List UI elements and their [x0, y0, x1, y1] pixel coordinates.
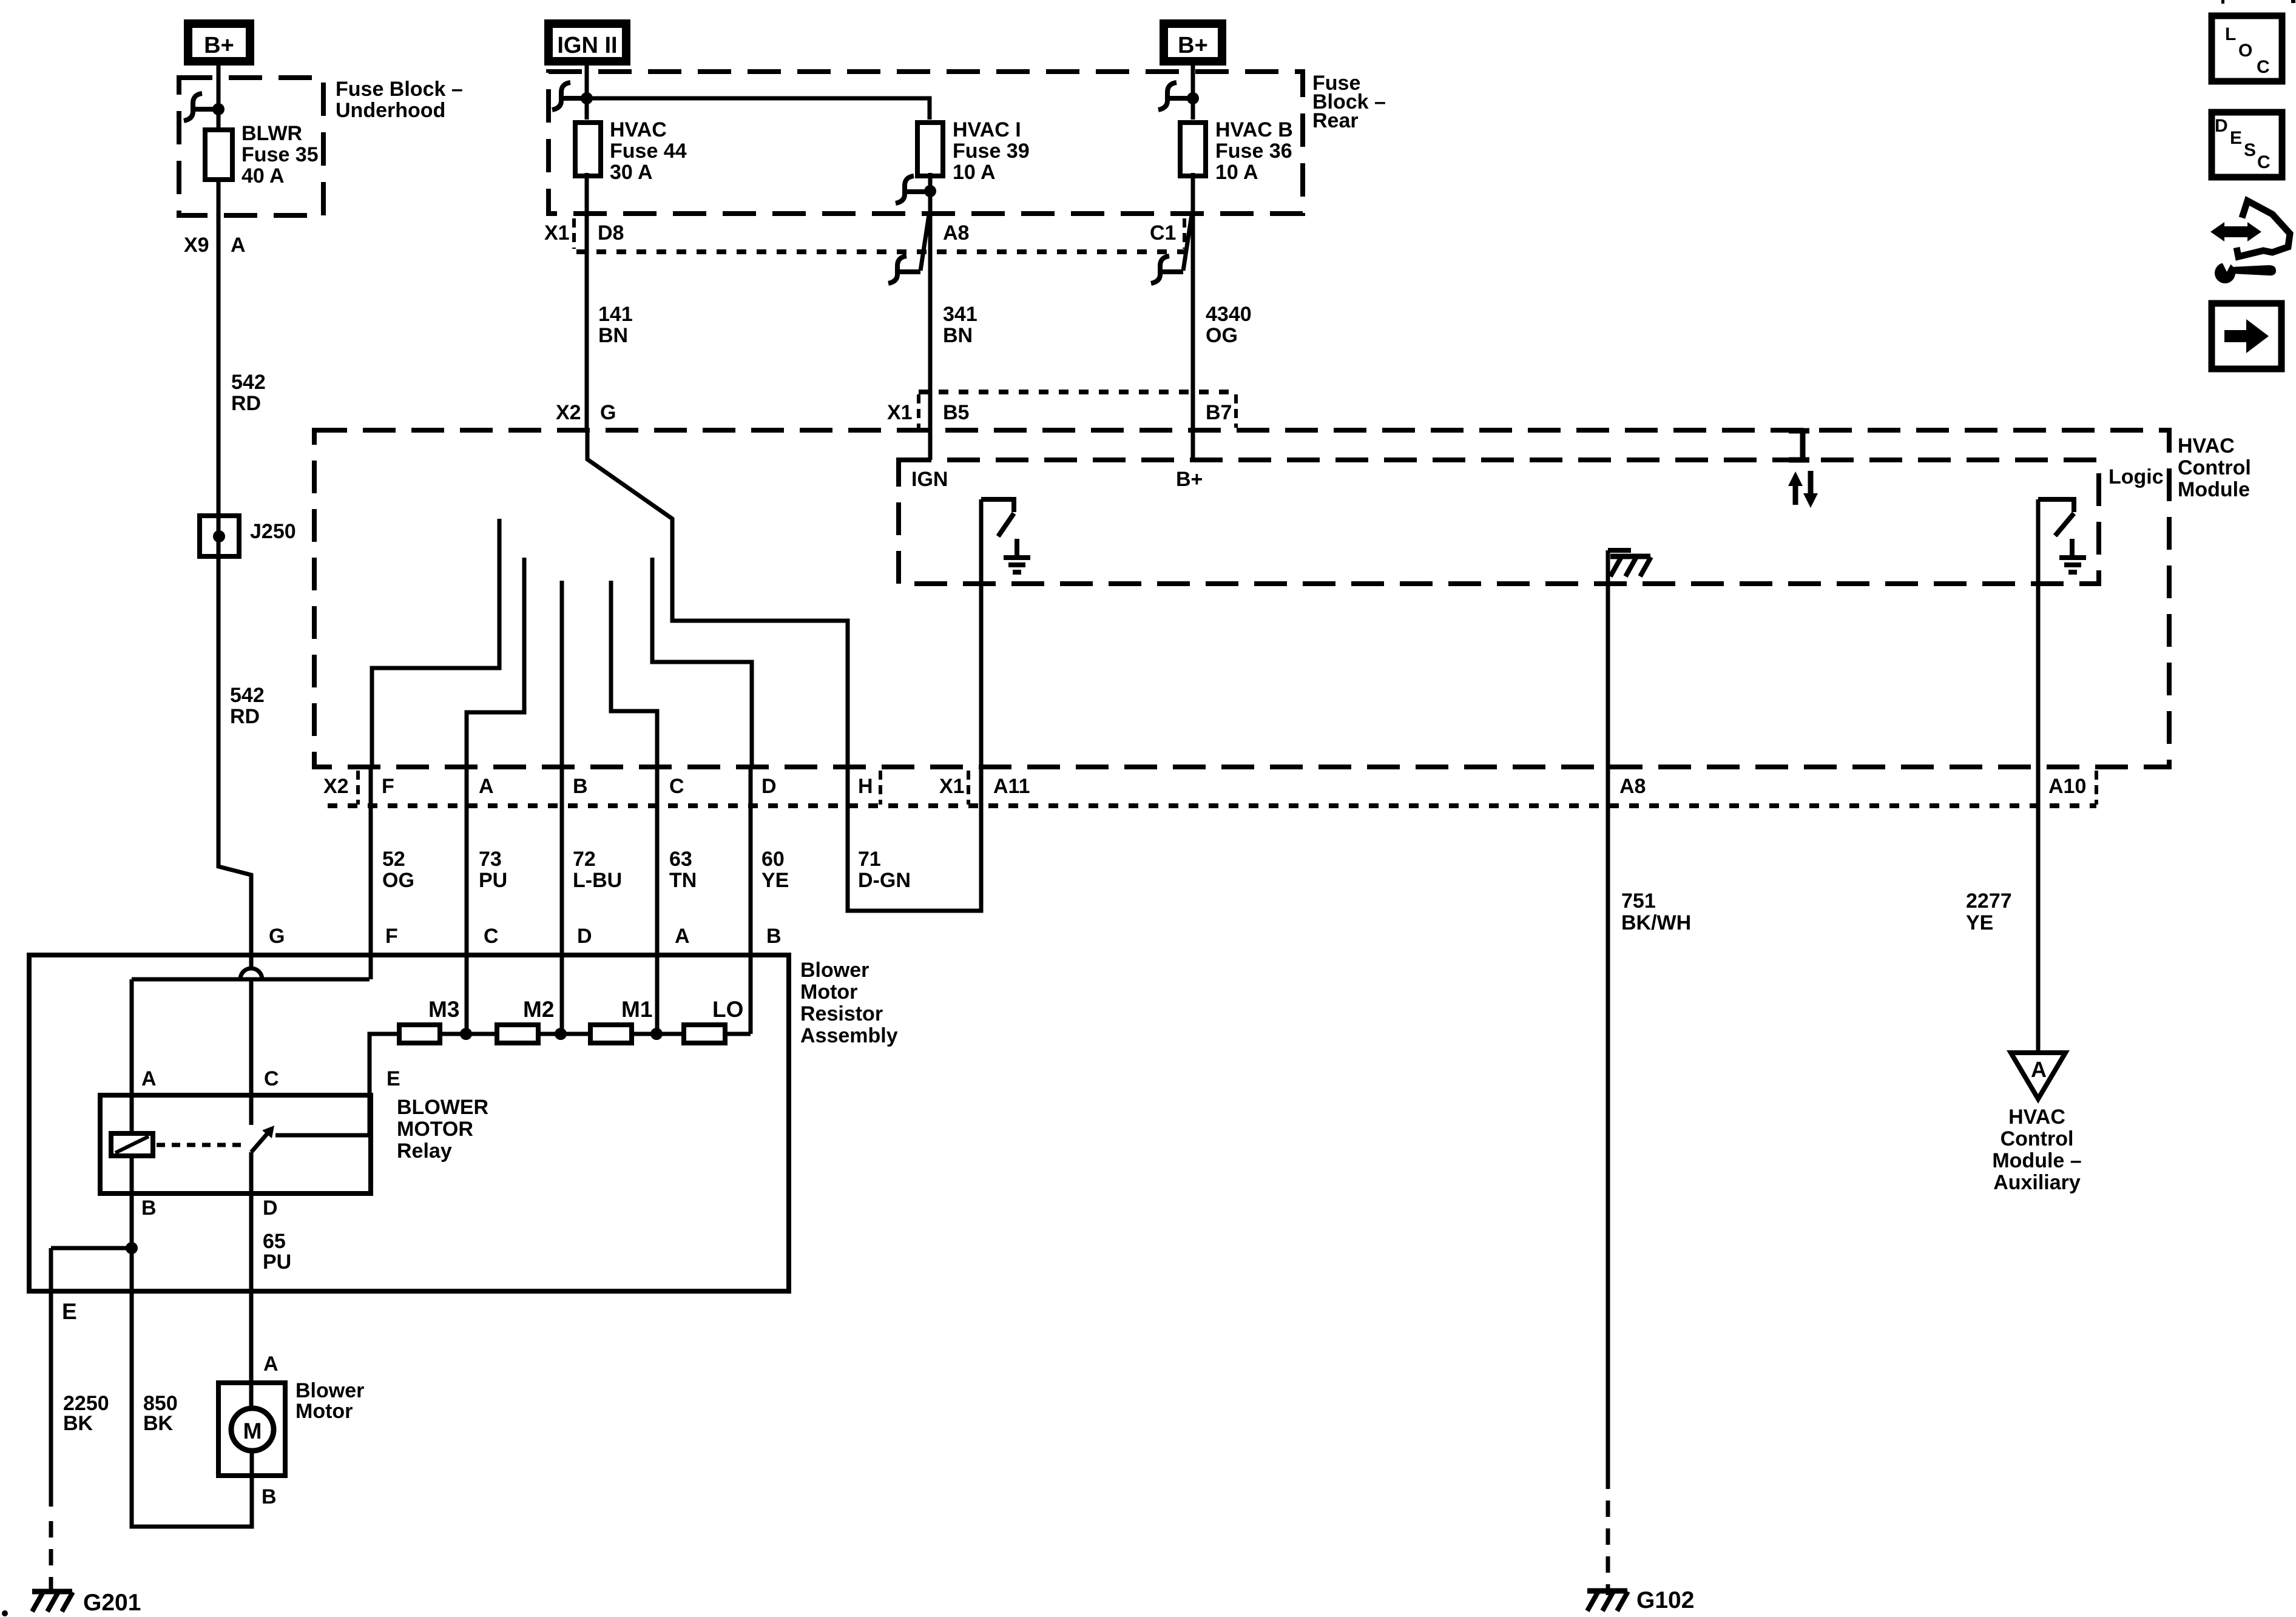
- wire fuse 36 to HVAC control module X1-B7 (4340 OG): [1191, 173, 1195, 460]
- node: resistor tap C: [460, 1028, 472, 1040]
- svg-text:BK: BK: [63, 1412, 93, 1435]
- ground G201: [32, 1592, 73, 1612]
- svg-text:30 A: 30 A: [610, 161, 653, 184]
- svg-text:Fuse 39: Fuse 39: [953, 140, 1030, 163]
- svg-text:Rear: Rear: [1312, 109, 1359, 132]
- wire B+ down to fuse 36: [1191, 66, 1195, 120]
- svg-text:60: 60: [761, 848, 785, 871]
- wire relay B to junction and blower motor return: [132, 1156, 252, 1527]
- svg-text:A: A: [2031, 1057, 2047, 1082]
- svg-text:Blower: Blower: [800, 959, 869, 982]
- svg-text:E: E: [2230, 128, 2242, 148]
- svg-text:Module –: Module –: [1992, 1149, 2081, 1172]
- svg-text:X1: X1: [939, 775, 965, 798]
- svg-text:D8: D8: [598, 221, 624, 245]
- svg-text:A8: A8: [943, 221, 969, 245]
- svg-text:B+: B+: [1178, 33, 1208, 58]
- branch continuation symbol at B+ rear junction: [1158, 83, 1190, 110]
- svg-text:Module: Module: [2178, 478, 2250, 501]
- svg-text:542: 542: [231, 371, 266, 394]
- icon double arrow with outline and wrench: [2220, 226, 2252, 237]
- wire fuse 44 to HVAC control module X2-G (141 BN): [585, 173, 589, 430]
- svg-text:65: 65: [263, 1230, 286, 1253]
- inline connector X1 (B5 / B7): [919, 390, 1236, 394]
- svg-text:L: L: [2225, 24, 2236, 44]
- svg-text:A: A: [141, 1067, 157, 1090]
- wire 73 PU (A to resistor C): [465, 767, 469, 1034]
- svg-text:Motor: Motor: [800, 981, 857, 1004]
- resistor chain wire: [370, 1034, 751, 1135]
- chassis ground inside module for pin A8: [1608, 548, 1631, 553]
- svg-text:S: S: [2244, 140, 2256, 160]
- relay coil: [111, 1133, 153, 1156]
- svg-text:B: B: [573, 775, 588, 798]
- Fuse Block - Underhood dashed box: [179, 78, 323, 215]
- svg-text:Underhood: Underhood: [336, 99, 445, 122]
- svg-text:LO: LO: [712, 997, 743, 1022]
- svg-text:Resistor: Resistor: [800, 1002, 883, 1025]
- svg-text:X9: X9: [184, 234, 209, 257]
- node: resistor tap D: [555, 1028, 567, 1040]
- svg-text:M2: M2: [523, 997, 554, 1022]
- svg-text:G: G: [600, 401, 616, 424]
- svg-text:Assembly: Assembly: [800, 1024, 898, 1047]
- svg-text:BK/WH: BK/WH: [1621, 911, 1691, 934]
- wire IGN II down to fuse 44: [585, 66, 589, 120]
- node: junction on IGN II feed: [581, 92, 593, 104]
- svg-text:L-BU: L-BU: [573, 869, 622, 892]
- branch stub with continuation symbol at pin C1: [1183, 215, 1192, 271]
- svg-text:Logic: Logic: [2109, 465, 2164, 488]
- svg-text:F: F: [385, 925, 398, 948]
- svg-text:C: C: [2257, 152, 2271, 172]
- HVAC Control Module outer dashed box: [314, 430, 2169, 767]
- module internal stub from pin C: [611, 581, 657, 767]
- relay internal wire E to contact: [275, 1133, 370, 1138]
- svg-text:63: 63: [669, 848, 692, 871]
- off-page triangle A to HVAC Control Module - Auxiliary: [2011, 1053, 2065, 1099]
- fuse BLWR Fuse 35 40 A: [205, 130, 232, 180]
- output driver switch to ground for pin A11: [981, 499, 1014, 536]
- resistor M3: [399, 1025, 440, 1043]
- svg-text:BN: BN: [598, 324, 628, 347]
- svg-text:PU: PU: [479, 869, 507, 892]
- svg-text:B: B: [141, 1197, 157, 1220]
- data link I-bar symbol: [1789, 431, 1809, 460]
- svg-text:B: B: [262, 1485, 277, 1508]
- svg-text:73: 73: [479, 848, 502, 871]
- svg-text:A: A: [231, 234, 246, 257]
- svg-text:D: D: [577, 925, 592, 948]
- svg-text:Relay: Relay: [397, 1139, 452, 1163]
- svg-text:Fuse Block –: Fuse Block –: [336, 78, 463, 101]
- svg-text:G: G: [269, 925, 285, 948]
- wire fuse 39 to HVAC control module X1-B5 (341 BN): [928, 173, 933, 460]
- svg-text:C1: C1: [1150, 221, 1176, 245]
- splice J250: [200, 516, 239, 556]
- data link up arrow: [1793, 485, 1798, 505]
- svg-text:BN: BN: [943, 324, 973, 347]
- wire IGN II junction across to fuse 39: [587, 98, 930, 120]
- B+ power terminal (top left): [188, 24, 250, 61]
- Logic inner dashed box: [899, 460, 2099, 584]
- svg-text:10 A: 10 A: [953, 161, 996, 184]
- svg-text:PU: PU: [263, 1251, 291, 1274]
- svg-text:D: D: [761, 775, 777, 798]
- svg-text:A10: A10: [2048, 775, 2086, 798]
- data link down arrow: [1808, 471, 1814, 493]
- node: junction below fuse 39: [924, 185, 936, 197]
- svg-text:A11: A11: [993, 775, 1030, 798]
- fuse HVAC I Fuse 39 10 A: [917, 123, 943, 176]
- wire 542 RD (B+ feed to J250 and relay): [218, 182, 251, 968]
- svg-text:E: E: [62, 1299, 77, 1324]
- svg-text:Fuse 44: Fuse 44: [610, 140, 687, 163]
- svg-text:RD: RD: [230, 705, 260, 728]
- icon box LOC (top right): [2212, 16, 2282, 81]
- branch continuation symbol at B+ junction: [184, 93, 216, 121]
- svg-text:YE: YE: [761, 869, 789, 892]
- svg-text:BLOWER: BLOWER: [397, 1096, 488, 1119]
- module internal stub from pin D: [652, 558, 752, 767]
- svg-text:IGN: IGN: [911, 468, 948, 491]
- svg-text:4340: 4340: [1206, 303, 1252, 326]
- svg-text:HVAC B: HVAC B: [1215, 118, 1293, 141]
- Blower Motor: [218, 1383, 285, 1476]
- svg-text:H: H: [858, 775, 873, 798]
- svg-text:40 A: 40 A: [241, 164, 285, 187]
- svg-text:Control: Control: [2001, 1127, 2074, 1150]
- svg-text:Fuse 35: Fuse 35: [241, 143, 319, 166]
- svg-text:10 A: 10 A: [1215, 161, 1258, 184]
- ground G102: [1587, 1591, 1628, 1611]
- svg-text:C: C: [264, 1067, 279, 1090]
- svg-text:Fuse 36: Fuse 36: [1215, 140, 1292, 163]
- resistor M1: [590, 1025, 632, 1043]
- B+ power terminal (top middle-right): [1164, 24, 1222, 61]
- wire 2250 BK to G201: [51, 1248, 132, 1507]
- relay switch blade with arrow tip: [251, 1130, 271, 1152]
- svg-text:M3: M3: [428, 997, 459, 1022]
- branch stub with continuation symbol at pin A8: [920, 215, 929, 271]
- wire 65 PU (relay D to blower motor A): [249, 1152, 254, 1409]
- svg-text:OG: OG: [1206, 324, 1238, 347]
- svg-text:M1: M1: [621, 997, 652, 1022]
- svg-text:Motor: Motor: [295, 1400, 353, 1423]
- icon box DESC: [2212, 112, 2282, 177]
- module internal wire G to H (staircase): [587, 430, 848, 767]
- svg-text:A: A: [263, 1352, 279, 1376]
- wire 63 TN (C to resistor A): [655, 767, 660, 1034]
- branch continuation symbol at IGN II junction: [552, 83, 584, 110]
- svg-text:C: C: [484, 925, 499, 948]
- node: junction on B+ rear feed: [1187, 92, 1199, 104]
- svg-text:D-GN: D-GN: [858, 869, 911, 892]
- svg-text:A: A: [479, 775, 494, 798]
- svg-text:HVAC: HVAC: [610, 118, 667, 141]
- fuse HVAC Fuse 44 30 A: [575, 123, 601, 176]
- svg-text:J250: J250: [250, 520, 296, 543]
- svg-text:B+: B+: [204, 33, 234, 58]
- stray print mark top: [2221, 0, 2224, 4]
- svg-text:BLWR: BLWR: [241, 122, 302, 145]
- stray print mark top right: [2291, 0, 2295, 3]
- svg-text:HVAC: HVAC: [2008, 1106, 2065, 1129]
- svg-text:HVAC: HVAC: [2178, 434, 2235, 457]
- svg-text:A8: A8: [1619, 775, 1646, 798]
- wire G to relay C with crossover hop: [240, 968, 262, 979]
- svg-text:F: F: [382, 775, 394, 798]
- svg-text:BK: BK: [143, 1412, 174, 1435]
- Blower Motor Resistor Assembly box: [29, 955, 789, 1291]
- icon box right arrow: [2212, 303, 2281, 369]
- svg-text:B: B: [766, 925, 782, 948]
- node: junction at relay B / ground branch: [126, 1242, 138, 1254]
- svg-text:542: 542: [230, 684, 265, 707]
- svg-text:71: 71: [858, 848, 881, 871]
- svg-text:X2: X2: [323, 775, 349, 798]
- svg-text:HVAC I: HVAC I: [953, 118, 1021, 141]
- resistor LO: [684, 1025, 725, 1043]
- svg-text:B7: B7: [1206, 401, 1232, 424]
- svg-text:751: 751: [1621, 890, 1656, 913]
- wire 60 YE (D to resistor B): [749, 767, 753, 1034]
- svg-text:B5: B5: [943, 401, 969, 424]
- svg-text:D: D: [263, 1197, 278, 1220]
- svg-text:YE: YE: [1966, 911, 1993, 934]
- svg-text:C: C: [2257, 57, 2270, 77]
- svg-text:MOTOR: MOTOR: [397, 1118, 473, 1141]
- svg-text:OG: OG: [382, 869, 414, 892]
- svg-text:341: 341: [943, 303, 977, 326]
- module internal stub from pin A: [467, 558, 524, 767]
- resistor M2: [497, 1025, 538, 1043]
- svg-text:D: D: [2215, 116, 2228, 136]
- module internal stub from pin B: [560, 581, 564, 767]
- wire 71 D-GN (H to A11): [848, 499, 981, 911]
- BLOWER MOTOR Relay box: [100, 1095, 371, 1193]
- relay linkage (dashed): [157, 1143, 245, 1147]
- node: junction on B+ feed: [212, 103, 225, 115]
- svg-text:A: A: [675, 925, 690, 948]
- svg-text:Blower: Blower: [295, 1379, 364, 1402]
- svg-text:72: 72: [573, 848, 596, 871]
- wire 2277 YE (A10 to auxiliary module): [2036, 499, 2041, 1053]
- svg-text:X2: X2: [556, 401, 581, 424]
- svg-text:E: E: [387, 1067, 400, 1090]
- svg-text:X1: X1: [887, 401, 913, 424]
- fuse HVAC B Fuse 36 10 A: [1180, 123, 1206, 176]
- Fuse Block - Rear dashed box: [549, 72, 1303, 214]
- svg-text:O: O: [2238, 41, 2252, 61]
- output driver switch to ground for pin A10: [2038, 499, 2074, 536]
- wire 52 OG (F to resistor F): [369, 767, 373, 979]
- svg-text:RD: RD: [231, 392, 261, 415]
- svg-text:141: 141: [598, 303, 633, 326]
- wire relay A to F (internal link): [132, 979, 370, 1133]
- svg-text:Control: Control: [2178, 456, 2251, 479]
- module internal stub from pin F: [372, 519, 499, 767]
- node: resistor tap A: [650, 1028, 663, 1040]
- svg-text:G201: G201: [83, 1590, 141, 1616]
- svg-text:M: M: [243, 1419, 262, 1443]
- wire 751 BK/WH (A8 to G102): [1606, 550, 1610, 1473]
- svg-text:IGN II: IGN II: [557, 33, 617, 58]
- wire B+ to fuse 35: [217, 66, 221, 127]
- svg-text:2277: 2277: [1966, 890, 2012, 913]
- svg-text:TN: TN: [669, 869, 697, 892]
- branch continuation symbol below fuse 39: [896, 176, 928, 203]
- svg-text:Auxiliary: Auxiliary: [1993, 1171, 2081, 1194]
- svg-text:B+: B+: [1176, 468, 1203, 491]
- svg-text:C: C: [669, 775, 684, 798]
- wire 72 L-BU (B to resistor D): [560, 767, 564, 1034]
- svg-text:52: 52: [382, 848, 405, 871]
- svg-text:G102: G102: [1636, 1587, 1694, 1613]
- page corner mark: [2, 1610, 8, 1616]
- IGN II power terminal: [549, 24, 626, 61]
- svg-text:X1: X1: [544, 221, 570, 245]
